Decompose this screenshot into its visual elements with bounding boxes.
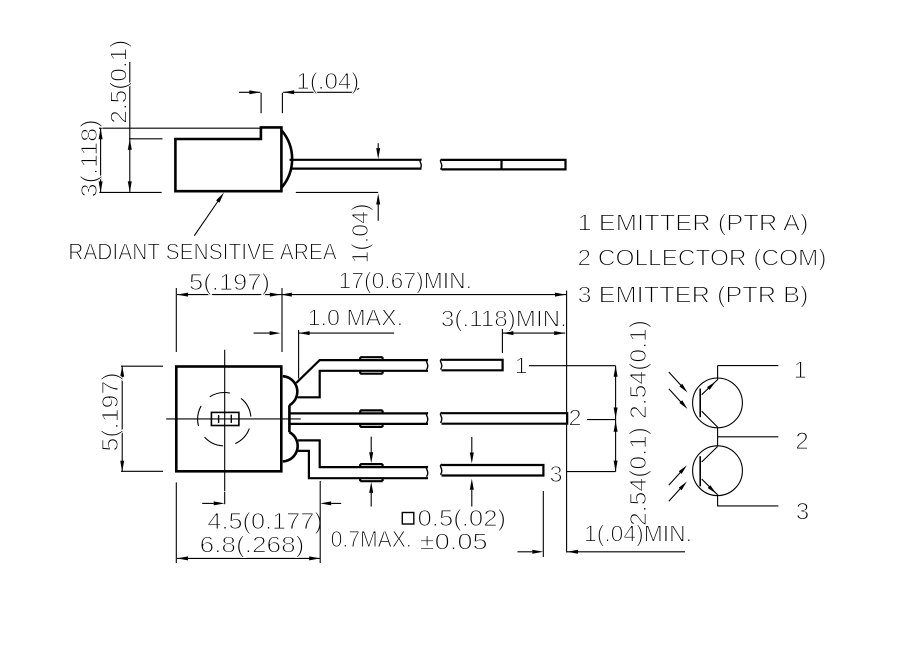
svg-text:RADIANT SENSITIVE AREA: RADIANT SENSITIVE AREA [68,239,337,265]
lead thickness arrow up [376,194,380,221]
extension line step right [281,93,283,114]
extension line square bottom left side [121,470,163,472]
dimension text 4.5(0.177) [207,508,322,534]
pin 3 reference line [566,471,616,473]
extension line pin1 end [501,329,503,353]
schematic pin 3 label [796,499,809,526]
extension line body top [129,138,163,140]
svg-text:6.8(.268): 6.8(.268) [200,532,305,558]
chip tick mark 1 [218,415,220,423]
phototransistor Q2 base bar [699,456,701,486]
svg-text:3: 3 [796,499,809,526]
dimension arrow left of step [239,90,260,94]
extension line lead bend bottom [319,481,321,563]
dimension text 5(.197) top [189,269,270,295]
svg-text:2.54(0.1): 2.54(0.1) [625,320,651,419]
svg-text:1 EMITTER (PTR A): 1 EMITTER (PTR A) [578,210,809,236]
dimension line and leader 1(.04) top [283,88,359,94]
side view lead segment 2 break cut [440,159,442,170]
svg-text:2.54(0.1): 2.54(0.1) [625,427,651,526]
pin 1 lead far segment [440,359,502,370]
dimension text 3(.118) [76,119,102,197]
extension line pin3 end bottom [542,491,544,557]
extension line square left bottom [175,482,177,563]
side view lead segment 1 bottom edge [291,168,422,170]
dimension text 0.5(.02) [418,505,507,531]
front view chip outline [211,412,239,425]
pin 3 schematic wire [718,495,779,506]
front view bottom lead bump [283,432,298,461]
pin 3 lead far segment [440,464,543,475]
front view lens dashed circle [198,393,251,446]
light arrows into Q1 [669,372,688,409]
pin list line 2 COLLECTOR (COM) [578,245,827,271]
svg-text:2.5(0.1): 2.5(0.1) [106,40,132,124]
schematic pin 1 label [794,357,807,384]
svg-text:1(.04): 1(.04) [347,204,373,264]
svg-text:0.5(.02): 0.5(.02) [418,505,507,531]
pin 2 schematic wire [718,436,779,438]
pin 1 schematic wire [718,365,779,367]
light arrows into Q2 [669,465,687,501]
dimension text 1(.04) top [296,68,359,94]
svg-text:1: 1 [515,353,528,379]
pin 2 lead collar [360,410,382,427]
side view lead segment 1 break cut [420,159,422,170]
front view top lead bump [283,376,298,405]
svg-text:2: 2 [795,428,808,455]
side view lens dome arc [281,130,292,188]
dimension line 1.0 MAX [299,331,395,335]
svg-text:3(.118)MIN.: 3(.118)MIN. [441,306,567,332]
dimension text 2.54(0.1) lower [625,427,651,526]
side view lead segment 1 top edge [290,159,422,161]
front view vertical centerline [224,350,226,492]
phototransistor Q1 base bar [699,389,701,418]
svg-text:1(.04): 1(.04) [296,68,359,94]
dimension text 5(.197) left [97,373,123,452]
pin 2 number label [568,404,581,430]
phototransistor Q2 collector [702,447,718,463]
svg-text:5(.197): 5(.197) [189,269,270,295]
front view bump connector edge [288,405,291,432]
svg-text:1.0 MAX.: 1.0 MAX. [308,305,404,331]
dimension line 3(.118)MIN. [502,331,565,335]
front view package body square [176,367,281,472]
dimension line 17(0.67)MIN. [281,293,566,297]
extension line square right top [281,288,283,352]
pin 2 reference line [587,419,616,421]
lead thickness arrow down [376,143,380,159]
chip tick mark 2 [230,415,232,423]
pin 3 lead break cut [426,466,428,477]
dimension text 6.8(.268) [200,532,305,558]
extension line square left top [175,288,177,352]
pin 2 lead outline [289,413,428,424]
dimension line 2.54 pitch [614,366,618,472]
schematic pin 2 label [795,428,808,455]
phototransistor Q2 emitter (to pin 3) [702,479,718,495]
dimension arrow 1.0 MAX left [254,331,281,335]
extension line square top left side [121,365,163,367]
pin 2 lead far segment [440,412,567,423]
extension line lead ends right tall [566,291,568,553]
dimension text 2.54(0.1) upper [625,320,651,419]
square symbol for 0.5 dim [402,513,414,525]
dimension arrows 0.7MAX collar [369,437,373,507]
svg-text:3(.118): 3(.118) [76,119,102,197]
label RADIANT SENSITIVE AREA [68,239,337,265]
svg-text:0.7MAX.: 0.7MAX. [331,526,412,552]
phototransistor Q1 collector [702,411,718,427]
dimension text 1(.04) rotated [347,204,373,264]
dimension line 1(.04)MIN [567,550,685,554]
dimension line 6.8(.268) [177,556,320,560]
common collector junction wire [717,427,719,446]
svg-text:3: 3 [549,461,562,487]
dimension arrow 1(.04)MIN left [518,550,544,554]
dimension arrow 4.5 right [320,501,341,505]
pin 1 lead break cut [426,359,428,370]
svg-text:5(.197): 5(.197) [97,373,123,452]
svg-text:4.5(0.177): 4.5(0.177) [207,508,322,534]
phototransistor Q2 circle [693,446,743,496]
svg-text:2: 2 [568,404,581,430]
dimension text +/-0.05 [420,529,488,555]
pin 1 lead bend outline [296,360,428,397]
svg-text:±0.05: ±0.05 [420,529,488,555]
dimension text 1.0 MAX. [308,305,404,331]
dimension line 2.5(0.1) [128,62,132,192]
pin 1 number label [515,353,528,379]
dimension line 3(.118) [99,128,103,192]
pin 3 lead collar [360,464,382,481]
svg-text:17(0.67)MIN.: 17(0.67)MIN. [339,268,473,294]
dimension line 5(.197) left [120,366,124,472]
side view lead segment 2 divider [500,160,502,170]
phototransistor Q1 circle [693,378,743,428]
dimension text 0.7MAX. [331,526,412,552]
pin 1 lead collar [360,357,382,374]
leader arrow to sensitive area [194,193,224,236]
svg-text:2 COLLECTOR (COM): 2 COLLECTOR (COM) [578,245,827,271]
dimension text 1(.04)MIN. [584,521,692,547]
pin 1 reference line [529,365,616,367]
dimension text 3(.118)MIN. [441,306,567,332]
side view lead segment 2 outline [442,160,566,170]
extension line lead bend top [298,330,300,379]
pin list line 1 EMITTER (PTR A) [578,210,809,236]
dimension arrow 4.5 left [202,501,225,505]
dimension text 17(0.67)MIN. [339,268,473,294]
side view package body outline [175,127,281,191]
pin list line 3 EMITTER (PTR B) [578,282,809,308]
extension line step left [260,93,262,114]
pin 3 number label [549,461,562,487]
extension line body bottom left [99,191,161,193]
centerline lower tick [224,492,226,504]
phototransistor Q1 emitter (to pin 1) [702,366,718,395]
svg-text:1: 1 [794,357,807,384]
pin 2 lead break cut [426,413,428,424]
extension line body bottom right [296,191,378,193]
svg-text:3 EMITTER (PTR B): 3 EMITTER (PTR B) [578,282,809,308]
dimension line 5(.197) top [177,293,281,297]
pin 3 lead bend outline [298,440,428,478]
dimension arrows 0.5 lead square [470,437,474,507]
front view horizontal centerline [166,418,301,420]
extension line top of step [99,127,260,129]
dimension text 2.5(0.1) [106,40,132,124]
